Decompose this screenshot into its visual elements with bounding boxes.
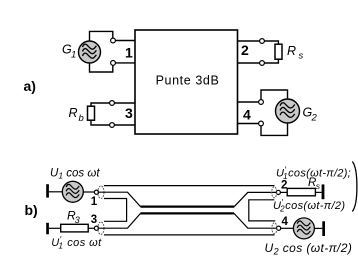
wire gen U1 to node1 [83,191,94,193]
terminal bar port2 [322,184,325,199]
generator U1 [62,181,83,202]
left closed end shield wire [104,199,127,222]
wire Rb bottom loop [91,120,110,125]
resistor Rs (b) [287,188,315,195]
wire R3 to node3 [88,227,94,229]
wire Rb top loop [91,103,110,106]
generator G1 [79,41,101,63]
top shield outline wire [104,185,275,187]
svg-text:s: s [299,51,304,62]
svg-text:1: 1 [71,50,76,61]
terminal circle port3 top [110,101,115,106]
terminal circle port4 top [259,100,264,105]
wire G2 bottom loop [261,123,288,135]
node 1 terminal circle [94,190,98,194]
svg-text:b: b [79,113,84,124]
bottom shield outline wire [104,234,275,236]
terminal bar R3 [46,223,49,235]
wire port2 top from box [238,40,260,42]
generator U2 [293,218,314,239]
svg-text:2: 2 [311,113,318,124]
terminal circle port3 bottom [110,123,115,128]
svg-text:2: 2 [281,180,287,192]
wire G1 bottom loop [90,63,113,73]
svg-text:R: R [287,44,296,58]
svg-text:R: R [69,106,78,120]
node 2 terminal circle [276,190,280,194]
svg-text:U′1 cos ωt: U′1 cos ωt [51,234,102,251]
wire node2 to Rs [280,191,287,193]
node 1 ellipse [98,186,104,199]
wire port3 bottom to box [114,124,135,126]
wire port1 bottom to box [115,62,135,64]
terminal circle port1 bottom [111,61,116,66]
svg-text:s: s [316,181,321,191]
svg-text:3: 3 [91,214,97,226]
wire bar to gen U1 [49,191,62,193]
wire coupled lower to node4 [234,213,277,228]
svg-text:4: 4 [282,216,289,228]
terminal circle port1 top [111,38,116,43]
svg-text:1: 1 [125,45,133,61]
svg-text:4: 4 [243,107,251,123]
resistor Rb [88,106,95,120]
wire Rs to bar [315,191,321,193]
resistor Rs [275,44,282,59]
svg-text:U′1cos(ωt-π/2);: U′1cos(ωt-π/2); [276,166,351,182]
big right paren [352,162,357,212]
box Punte 3dB [135,30,238,134]
svg-text:b): b) [25,202,38,218]
svg-text:3: 3 [125,105,133,121]
svg-text:Punte 3dB: Punte 3dB [156,74,220,88]
svg-text:2: 2 [241,42,249,58]
svg-text:U1 cos ωt: U1 cos ωt [50,168,100,181]
svg-text:1: 1 [91,196,98,208]
wire coupled upper to node2 [234,192,276,206]
node 3 terminal circle [94,226,98,230]
wire bar to R3 [49,227,61,229]
wire terminal to Rs top [264,41,278,44]
node1 center conductor wire [99,192,141,206]
generator G2 [276,99,300,123]
terminal bar U1 [46,184,49,197]
node 3 ellipse [98,222,104,235]
wire port3 top to box [114,102,135,104]
wire port4 top from box [238,101,259,103]
wire port2 bottom from box [238,62,260,64]
terminal circle port2 top [260,39,265,44]
wire port1 top to box [115,40,135,42]
node 2 ellipse [272,187,277,198]
terminal circle port2 bottom [260,61,265,66]
wire G1 top loop [90,31,113,41]
coupled line upper [141,206,235,208]
coupled line lower [141,212,235,214]
resistor R3 [61,224,88,232]
svg-text:3: 3 [75,215,80,225]
wire G2 top loop [261,90,288,100]
node 4 ellipse [272,223,277,234]
wire gen U2 to bar [314,227,322,229]
wire terminal to Rs bottom [264,59,278,63]
right closed end shield wire [249,200,275,221]
svg-text:a): a) [24,78,36,94]
wire port4 bottom from box [238,123,259,125]
wire node4 to gen U2 [281,227,294,229]
node 4 terminal circle [277,226,281,230]
node3 center conductor wire [99,213,141,228]
terminal circle port4 bottom [259,121,264,126]
terminal bar port4 [322,221,325,236]
